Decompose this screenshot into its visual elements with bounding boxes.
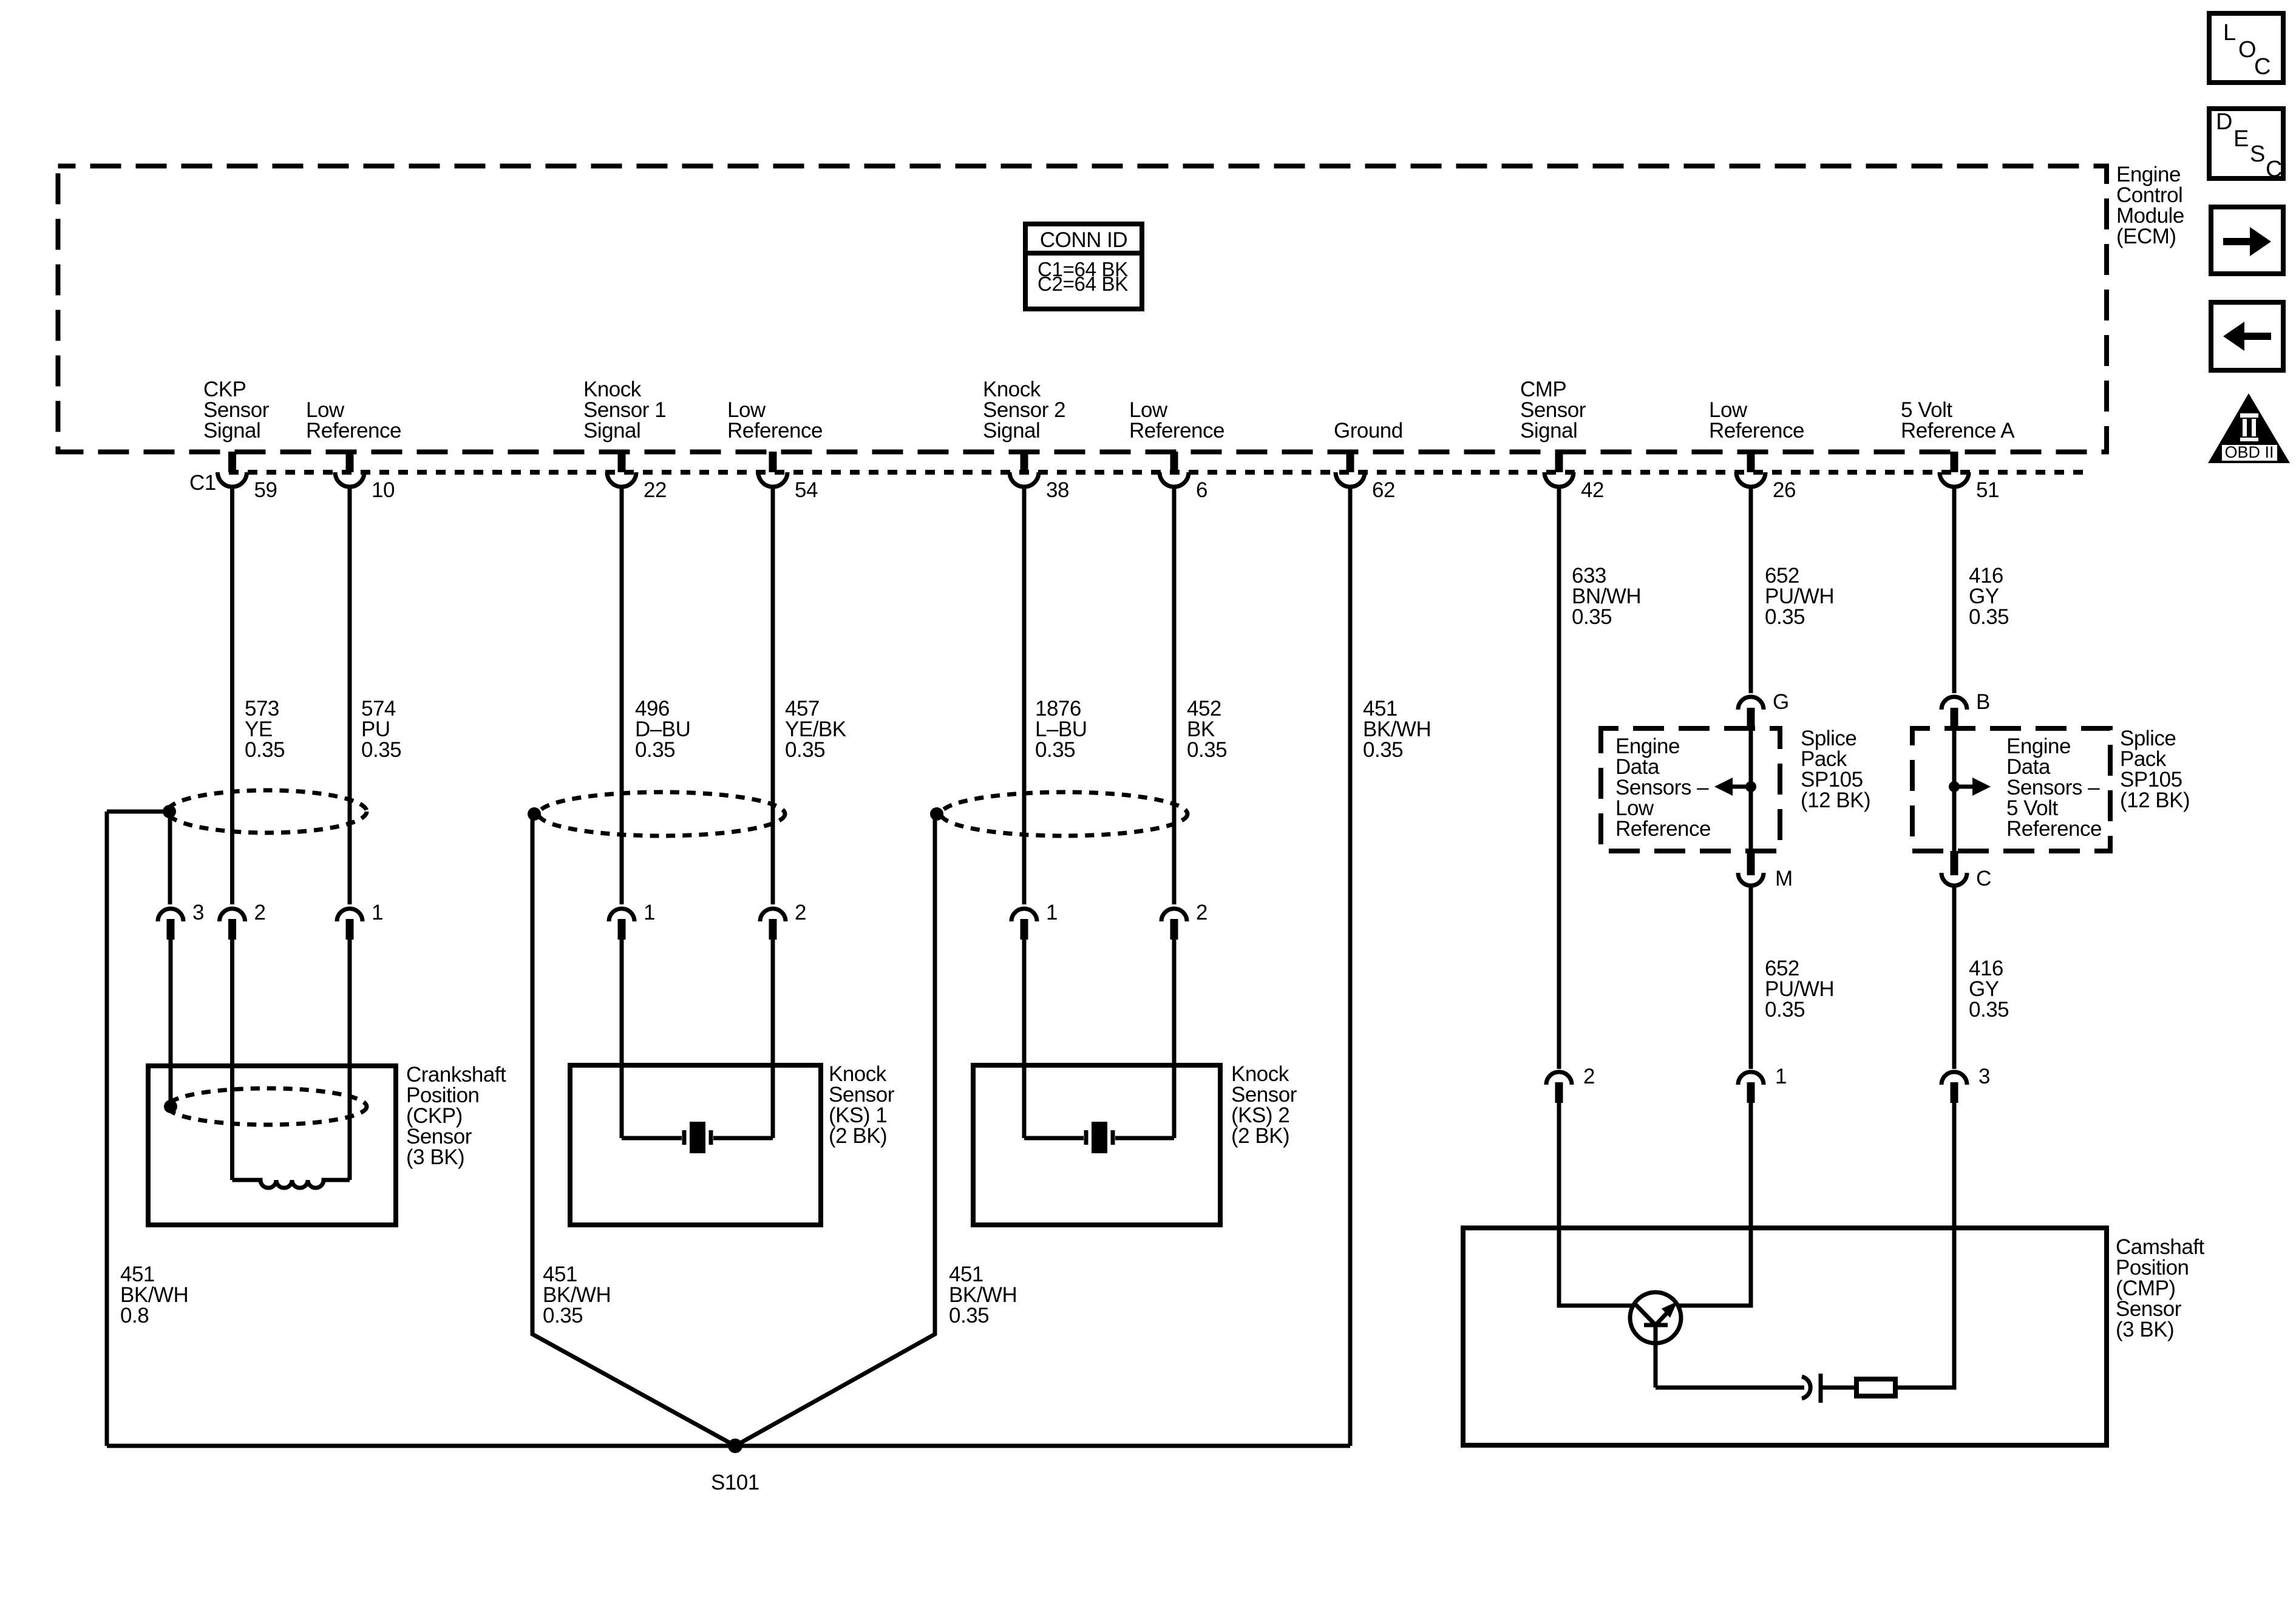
icon LOC box xyxy=(2209,13,2283,83)
wire CMP pin 2 into sensor xyxy=(1559,1103,1633,1306)
svg-text:1: 1 xyxy=(644,901,655,924)
svg-text:D: D xyxy=(2216,109,2232,135)
svg-text:3: 3 xyxy=(192,901,204,924)
ECM connector C1 pin 22 xyxy=(607,452,667,502)
svg-text:G: G xyxy=(1773,690,1789,714)
splice pack SP105 5 volt reference dashed box xyxy=(1912,728,2110,851)
svg-text:26: 26 xyxy=(1773,478,1796,502)
splice arrow to 5 volt reference sensors xyxy=(1954,778,1991,796)
wire KS2 pin 2 to piezo xyxy=(1172,940,1177,1138)
svg-text:E: E xyxy=(2233,126,2249,152)
splice pack SP105 low reference dashed box xyxy=(1601,728,1780,851)
wire 652 PU/WH lower segment xyxy=(1749,887,1753,1069)
wire capacitor to resistor xyxy=(1821,1386,1856,1390)
svg-text:C: C xyxy=(2266,157,2282,182)
wire KS1 pin 1 to piezo xyxy=(620,940,624,1138)
ECM connector C1 pin 38 xyxy=(1010,452,1069,502)
splice pack pin C xyxy=(1941,851,1991,890)
wire 416 GY upper segment xyxy=(1952,487,1957,693)
svg-text:2: 2 xyxy=(254,901,266,924)
wire CMP pin 3 into sensor xyxy=(1895,1103,1954,1388)
svg-text:42: 42 xyxy=(1581,478,1604,502)
KS2 connector pin 1 xyxy=(1011,901,1058,940)
shield junction dot KS1 xyxy=(528,807,541,821)
svg-text:KnockSensor(KS) 2(2 BK): KnockSensor(KS) 2(2 BK) xyxy=(1231,1062,1297,1148)
svg-text:Ground: Ground xyxy=(1334,419,1403,442)
drain wire CKP shield dot down to pin 3 xyxy=(168,814,172,904)
ground bus wire along bottom xyxy=(107,1444,1350,1448)
svg-text:C1: C1 xyxy=(189,471,216,495)
CONN ID table box xyxy=(1025,224,1142,309)
knock sensor 2 box xyxy=(973,1065,1220,1225)
wire through splice pack (652) xyxy=(1749,728,1753,851)
ECM connector C1 pin 59 xyxy=(218,452,277,502)
piezo element KS1 xyxy=(622,1122,773,1153)
wire 574 PU (CKP low reference) xyxy=(348,487,352,904)
wire 652 PU/WH upper segment xyxy=(1749,487,1753,693)
transistor Q1 (hall-effect output) xyxy=(1630,1292,1681,1388)
svg-text:EngineControlModule(ECM): EngineControlModule(ECM) xyxy=(2116,163,2184,248)
CKP connector pin 3 xyxy=(158,901,204,940)
svg-text:1: 1 xyxy=(1775,1065,1787,1088)
svg-text:22: 22 xyxy=(644,478,667,502)
svg-text:54: 54 xyxy=(795,478,818,502)
wire 416 GY lower segment xyxy=(1952,887,1957,1069)
camshaft position sensor box xyxy=(1463,1228,2107,1445)
crankshaft position sensor box xyxy=(148,1066,396,1225)
ECM connector C1 pin 6 xyxy=(1160,452,1207,502)
svg-text:C: C xyxy=(1976,867,1991,890)
svg-text:10: 10 xyxy=(372,478,395,502)
svg-text:6: 6 xyxy=(1196,478,1207,502)
shield ellipse KS2 harness xyxy=(941,792,1187,836)
ECM connector C1 pin 10 xyxy=(335,452,395,502)
icon arrow right box xyxy=(2211,207,2283,274)
ECM connector C1 pin 42 xyxy=(1544,452,1604,502)
wire KS2 pin 1 to piezo xyxy=(1022,940,1027,1138)
ECM module dashed outline box xyxy=(58,166,2107,452)
CKP connector pin 2 xyxy=(220,901,266,940)
wire 457 YE/BK (KS1 low reference) xyxy=(771,487,775,904)
CMP connector pin 1 xyxy=(1738,1065,1787,1103)
splice S101 junction dot xyxy=(728,1439,742,1453)
svg-text:38: 38 xyxy=(1046,478,1069,502)
svg-text:C1=64 BKC2=64 BK: C1=64 BKC2=64 BK xyxy=(1038,258,1128,295)
splice junction dot (low ref) xyxy=(1745,781,1756,792)
svg-text:B: B xyxy=(1976,690,1990,714)
svg-text:O: O xyxy=(2238,37,2256,63)
wire CKP pin 3 to inner shield xyxy=(169,940,173,1103)
svg-text:M: M xyxy=(1775,867,1793,890)
svg-text:CONN ID: CONN ID xyxy=(1040,228,1127,252)
svg-text:3: 3 xyxy=(1978,1065,1990,1088)
drain wire 451 BK/WH 0.35 from KS1 shield xyxy=(532,814,735,1446)
shield junction dot CKP xyxy=(163,805,176,818)
ECM connector C1 pin 51 xyxy=(1940,452,1999,502)
CKP pickup coil xyxy=(233,1180,350,1188)
KS2 connector pin 2 xyxy=(1161,901,1207,940)
wire CKP pin 2 to coil xyxy=(230,940,234,1180)
knock sensor 1 box xyxy=(570,1065,821,1225)
svg-text:KnockSensor(KS) 1(2 BK): KnockSensor(KS) 1(2 BK) xyxy=(829,1062,895,1148)
wire 451 BK/WH ground from pin 62 xyxy=(1348,487,1353,1446)
capacitor C1 curved plate xyxy=(1802,1377,1810,1398)
icon OBD II triangle xyxy=(2208,393,2290,463)
svg-text:C: C xyxy=(2254,54,2271,80)
drain wire to CKP shield xyxy=(107,810,165,814)
shield ellipse inside CKP sensor xyxy=(168,1088,367,1125)
wire 452 BK (KS2 low reference) xyxy=(1172,487,1177,904)
KS1 connector pin 1 xyxy=(609,901,655,940)
capacitor C1 straight plate xyxy=(1819,1374,1823,1403)
svg-text:59: 59 xyxy=(254,478,277,502)
svg-text:S101: S101 xyxy=(711,1471,759,1494)
shield ellipse KS1 harness xyxy=(538,792,785,836)
svg-text:2: 2 xyxy=(795,901,806,924)
wire KS1 pin 2 to piezo xyxy=(771,940,775,1138)
CMP connector pin 2 xyxy=(1546,1065,1595,1103)
wire 573 YE (CKP signal) xyxy=(230,487,234,904)
wire 633 BN/WH (CMP signal) xyxy=(1557,487,1561,1069)
splice junction dot (5v ref) xyxy=(1949,781,1960,792)
svg-text:1: 1 xyxy=(1046,901,1058,924)
ECM connector C1 pin 62 xyxy=(1336,452,1395,502)
shield junction dot inside CKP xyxy=(164,1100,177,1113)
splice pack pin B xyxy=(1941,690,1990,728)
CKP connector pin 1 xyxy=(337,901,383,940)
resistor R1 xyxy=(1856,1379,1895,1396)
wire through splice pack (416) xyxy=(1952,728,1957,851)
svg-text:OBD II: OBD II xyxy=(2224,443,2274,461)
ECM connector C1 pin 26 xyxy=(1736,452,1796,502)
drain wire 451 BK/WH 0.35 from KS2 shield xyxy=(735,814,935,1446)
wire 1876 L-BU (KS2 signal) xyxy=(1022,487,1027,904)
shield ellipse CKP harness xyxy=(168,790,367,833)
splice pack pin M xyxy=(1738,851,1793,890)
svg-text:L: L xyxy=(2223,20,2236,46)
drain wire 451 BK/WH 0.8 left vertical xyxy=(105,812,109,1446)
shield junction dot KS2 xyxy=(930,807,943,821)
icon DESC box xyxy=(2209,109,2283,182)
CMP connector pin 3 xyxy=(1941,1065,1990,1103)
svg-text:62: 62 xyxy=(1372,478,1395,502)
KS1 connector pin 2 xyxy=(760,901,806,940)
svg-text:1: 1 xyxy=(372,901,383,924)
svg-text:S: S xyxy=(2250,141,2265,167)
wire CKP pin 1 to coil xyxy=(348,940,352,1180)
connector C1 face dotted line xyxy=(229,470,2091,475)
svg-text:51: 51 xyxy=(1976,478,1999,502)
splice pack pin G xyxy=(1738,690,1789,728)
wire 496 D-BU (KS1 signal) xyxy=(620,487,624,904)
emitter wire to capacitor xyxy=(1656,1386,1804,1390)
wire CMP pin 1 into sensor xyxy=(1678,1103,1751,1306)
piezo element KS2 xyxy=(1024,1122,1174,1153)
ECM connector C1 pin 54 xyxy=(758,452,818,502)
svg-text:2: 2 xyxy=(1583,1065,1595,1088)
icon arrow left box xyxy=(2211,302,2283,370)
svg-text:2: 2 xyxy=(1196,901,1207,924)
splice arrow to low reference sensors xyxy=(1714,778,1751,796)
